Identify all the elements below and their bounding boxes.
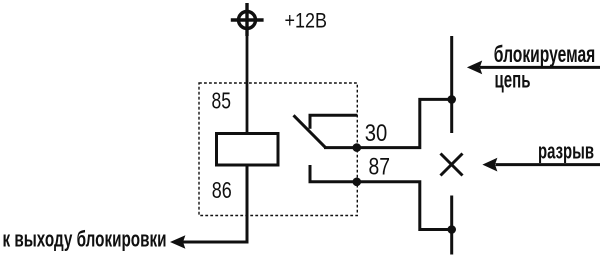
- wire: +12V supply to relay coil: [246, 30, 249, 135]
- wire: contact 30 lead to blocked circuit: [324, 99, 453, 147]
- blocked circuit wire (upper segment): [450, 36, 453, 133]
- svg-text:85: 85: [212, 88, 232, 114]
- +12V supply terminal symbol: [231, 3, 264, 36]
- junction: pin 87 at relay edge: [353, 178, 362, 187]
- junction: lower blocked wire node: [447, 225, 456, 234]
- junction: upper blocked wire node: [447, 95, 456, 104]
- svg-text:блокируемая: блокируемая: [494, 41, 596, 67]
- svg-text:цепь: цепь: [495, 66, 531, 92]
- wire: coil pin 86 to blocking output: [183, 165, 247, 242]
- wire: contact 87 lead to blocked circuit: [310, 165, 453, 230]
- relay dashed outline: [199, 83, 357, 216]
- svg-text:разрыв: разрыв: [538, 139, 594, 164]
- relay coil: [217, 134, 279, 166]
- arrow: blocked circuit (head): [467, 61, 482, 75]
- switch: movable contact arm: [294, 115, 326, 147]
- arrow: blocked circuit (shaft): [480, 66, 600, 69]
- switch: fixed contact: [310, 115, 357, 129]
- break mark X: [441, 154, 463, 176]
- junction: pin 30 at relay edge: [353, 143, 362, 152]
- svg-text:к выходу блокировки: к выходу блокировки: [3, 226, 167, 251]
- arrowhead to blocking output: [170, 235, 185, 248]
- svg-text:86: 86: [212, 177, 232, 203]
- blocked circuit wire (lower segment): [450, 196, 453, 255]
- svg-text:30: 30: [365, 120, 388, 147]
- arrow: break point (head): [482, 158, 497, 172]
- svg-text:87: 87: [369, 154, 391, 181]
- svg-text:+12В: +12В: [285, 9, 328, 33]
- arrow: break point (shaft): [496, 163, 600, 166]
